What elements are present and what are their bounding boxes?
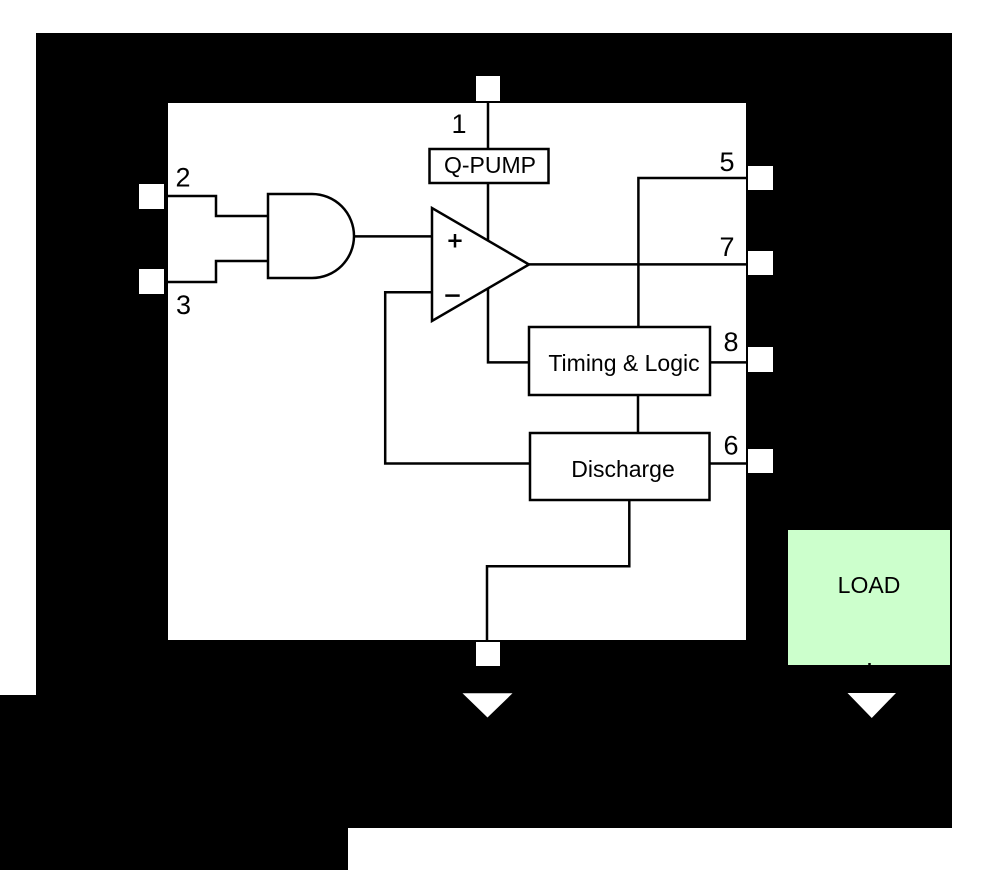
wire pin3 to AND gate <box>164 261 268 282</box>
svg-text:Timing & Logic: Timing & Logic <box>548 350 699 376</box>
wire AND gate to comparator + <box>354 235 432 238</box>
Q-PUMP block <box>430 149 549 183</box>
comparator U2 <box>432 208 529 321</box>
black background panel (bottom-left extension) <box>0 695 348 870</box>
wire pin2 to AND gate <box>164 196 268 216</box>
wire feedback comparator - to Discharge <box>385 292 530 463</box>
ground symbol under LOAD <box>848 693 897 718</box>
svg-text:6: 6 <box>723 431 738 461</box>
IC body (white box) <box>168 103 746 640</box>
svg-text:LOAD: LOAD <box>838 572 901 598</box>
wire Discharge to pin 6 <box>710 462 747 465</box>
ground symbol under IC <box>463 693 513 717</box>
wire LOAD to ground stub <box>868 663 871 666</box>
svg-text:5: 5 <box>719 147 734 177</box>
comparator - label <box>445 294 459 297</box>
wire pin 5 down to Timing & Logic <box>638 178 746 327</box>
svg-text:Q-PUMP: Q-PUMP <box>444 152 536 178</box>
wire Timing & Logic to Discharge <box>637 395 640 433</box>
pin 2 pad (left) <box>139 184 164 209</box>
pin 3 pad (left) <box>139 269 164 294</box>
AND gate U1 <box>268 194 354 278</box>
pin 6 pad (right) <box>748 449 773 473</box>
svg-text:3: 3 <box>176 290 191 320</box>
bottom pin pad (GND) <box>476 642 500 666</box>
svg-text:8: 8 <box>723 327 738 357</box>
wire Timing & Logic to pin 8 <box>710 361 746 364</box>
wire pin1 to Q-PUMP <box>487 101 490 150</box>
Timing & Logic block <box>529 327 710 395</box>
pin 8 pad (right) <box>748 347 773 372</box>
svg-text:2: 2 <box>175 163 190 193</box>
pin 7 pad (right) <box>748 251 773 275</box>
LOAD block <box>788 530 950 665</box>
wire comparator output to pin 7 <box>529 263 746 266</box>
svg-text:1: 1 <box>451 109 466 139</box>
svg-text:7: 7 <box>719 232 734 262</box>
wire Q-PUMP down to Timing & Logic <box>488 183 529 362</box>
svg-text:Discharge: Discharge <box>571 456 675 482</box>
Discharge block <box>530 433 710 500</box>
comparator + label <box>448 234 461 248</box>
pin 1 pad (top) <box>476 76 500 101</box>
pin 5 pad (right) <box>748 166 773 190</box>
wire Discharge to bottom pin <box>487 500 629 642</box>
